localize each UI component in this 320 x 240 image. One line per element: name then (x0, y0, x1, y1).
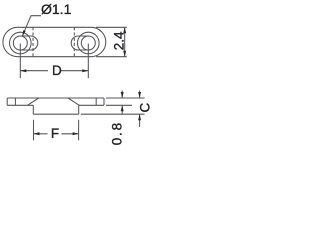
side view right tick (95, 98, 97, 105)
D extension line right (87, 44, 89, 79)
side view left diagonal (27, 98, 38, 105)
D extension line left (19, 44, 21, 79)
boss circle right (78, 32, 100, 54)
C arrow bottom (138, 114, 141, 120)
C dim line top tail (139, 91, 141, 99)
C dim line bottom tail (139, 114, 141, 127)
side view right step (78, 105, 80, 114)
svg-text:F: F (51, 126, 59, 141)
F extension line right (78, 120, 80, 141)
0.8 dim line top tail (121, 91, 123, 99)
D arrow right (82, 69, 88, 72)
hidden line left (32, 27, 34, 56)
2.4 arrow top (123, 27, 126, 33)
F arrow right (73, 132, 79, 135)
0.8 arrow bottom (121, 105, 124, 111)
side view right edge (103, 98, 105, 105)
D dimension line (20, 70, 48, 72)
side view boss bottom (33, 113, 78, 115)
2.4 arrow bottom (123, 51, 126, 57)
2.4 dimension line (124, 27, 126, 56)
side view top surface line (7, 97, 104, 99)
svg-text:C: C (138, 102, 153, 112)
F arrow left (34, 132, 40, 135)
svg-text:D: D (52, 63, 62, 78)
side view plate bottom right (79, 104, 104, 106)
svg-text:0.8: 0.8 (110, 121, 125, 145)
bottom edge extension line (to 2.4 dim) (96, 56, 127, 58)
0.8 arrow top (121, 92, 124, 98)
side view left tick (14, 98, 16, 105)
top surface extension line (106, 97, 145, 99)
slot right (71, 36, 88, 50)
side view left edge (6, 98, 8, 105)
leader line dia 1.1 (22, 16, 41, 37)
boss circle left (9, 32, 31, 54)
slot left (20, 36, 38, 50)
top edge extension line (to 2.4 dim) (96, 26, 127, 28)
0.8 dim line bottom tail (121, 105, 123, 114)
D arrow left (20, 69, 26, 72)
hole circle right (81, 36, 95, 50)
side view left step (32, 105, 34, 114)
boss bottom extension line (81, 113, 145, 115)
hole circle left (13, 36, 27, 50)
hidden line right (73, 27, 75, 56)
svg-text:2.4: 2.4 (112, 31, 127, 50)
svg-text:Ø1.1: Ø1.1 (41, 1, 72, 17)
F dimension line (34, 133, 48, 135)
leader arrowhead (22, 30, 25, 36)
side view right diagonal (68, 98, 79, 105)
C arrow top (138, 92, 141, 98)
plate bottom extension line (106, 104, 132, 106)
side view plate bottom left (7, 104, 33, 106)
top view outline obround (3, 27, 106, 56)
F extension line left (33, 120, 35, 141)
